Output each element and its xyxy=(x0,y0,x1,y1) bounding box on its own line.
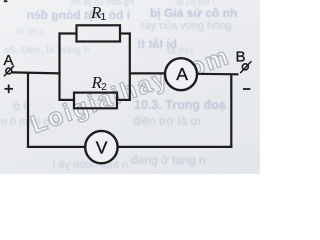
ammeter A circle xyxy=(165,58,197,90)
svg-text:1: 1 xyxy=(101,12,107,23)
wire: R2 to right node xyxy=(117,99,131,101)
svg-text:2: 2 xyxy=(101,82,107,93)
stray mark top-left corner xyxy=(4,0,8,2)
watermark xyxy=(27,42,234,140)
node right vertical of parallel block xyxy=(129,32,131,101)
terminal A symbol xyxy=(4,66,14,77)
voltmeter V circle xyxy=(85,131,117,163)
wire: left node to R1 xyxy=(60,32,78,34)
wire: left node to R2 xyxy=(60,99,75,101)
svg-text:V: V xyxy=(96,137,108,157)
wire: bottom run right of voltmeter xyxy=(118,146,232,148)
resistor R2 xyxy=(74,93,117,109)
minus sign at terminal B xyxy=(243,88,250,90)
wire: left drop (voltmeter branch) xyxy=(27,72,29,148)
wire: bottom run left of voltmeter xyxy=(27,146,85,148)
bleed-through ghost text lines xyxy=(22,0,134,7)
wire: R1 to right node xyxy=(120,32,131,34)
circuit schematic xyxy=(0,0,260,174)
plus sign at terminal A xyxy=(5,85,14,94)
wire: right node to ammeter xyxy=(130,72,165,74)
wire: right drop xyxy=(230,74,232,149)
wire: terminal A to left node xyxy=(12,72,61,73)
node left vertical of parallel block xyxy=(58,32,60,101)
resistor R1 xyxy=(77,25,121,41)
svg-text:A: A xyxy=(4,52,14,69)
svg-text:A: A xyxy=(176,64,188,84)
svg-text:B: B xyxy=(236,48,246,65)
wire: ammeter to terminal B corner xyxy=(197,73,239,76)
terminal B symbol xyxy=(240,61,251,73)
